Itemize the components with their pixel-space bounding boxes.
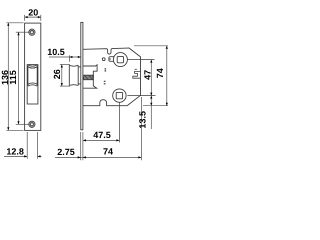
handle follower (top, circle with square) xyxy=(113,53,127,67)
svg-text:10.5: 10.5 xyxy=(47,47,65,57)
bottom follower centerline right xyxy=(127,95,155,97)
svg-text:115: 115 xyxy=(8,70,18,85)
svg-text:13.5: 13.5 xyxy=(137,111,147,129)
faceplate side view xyxy=(81,22,83,129)
dim 136 (left outer) xyxy=(6,23,23,131)
dim 12.8 (bottom left) xyxy=(4,132,42,159)
tiny pin dashes upper xyxy=(105,69,107,71)
dim 47.5 (backset) xyxy=(83,139,119,141)
bottom follower (circle with square) xyxy=(113,89,126,102)
faceplate front view xyxy=(25,23,41,130)
lock case outline side view xyxy=(83,48,141,106)
tiny pin dashes lower xyxy=(104,81,106,84)
svg-text:74: 74 xyxy=(155,68,165,78)
dim 115 (left inner) xyxy=(16,32,29,124)
svg-text:74: 74 xyxy=(103,146,113,156)
svg-text:47: 47 xyxy=(143,70,153,80)
screw hole bottom xyxy=(29,121,35,127)
dim 26 xyxy=(60,65,70,87)
screw hole top xyxy=(29,29,35,35)
svg-text:20: 20 xyxy=(28,7,38,17)
svg-text:47.5: 47.5 xyxy=(93,130,111,140)
svg-text:2.75: 2.75 xyxy=(57,147,75,157)
latch spring (hatched) xyxy=(83,75,93,80)
dim 10.5 xyxy=(49,55,81,62)
svg-text:12.8: 12.8 xyxy=(6,147,24,157)
dim 20 (top) xyxy=(25,15,41,21)
retaining clip xyxy=(133,71,141,78)
dim 74 (right vertical) xyxy=(143,46,168,106)
latch tail slider xyxy=(83,65,97,88)
latch bolt side view (spool) xyxy=(69,65,81,85)
dim 47 + 13.5 (right vertical) xyxy=(134,46,168,129)
latch bolt front view xyxy=(28,65,37,86)
small pivot circle xyxy=(102,58,105,61)
latch window front view xyxy=(27,65,38,104)
dim 2.75 + 74 (bottom) xyxy=(55,97,141,160)
follower centerline to dims xyxy=(127,59,154,61)
svg-text:26: 26 xyxy=(52,69,62,79)
bottom follower centerline down xyxy=(118,102,120,142)
follower hub nub xyxy=(109,57,114,62)
